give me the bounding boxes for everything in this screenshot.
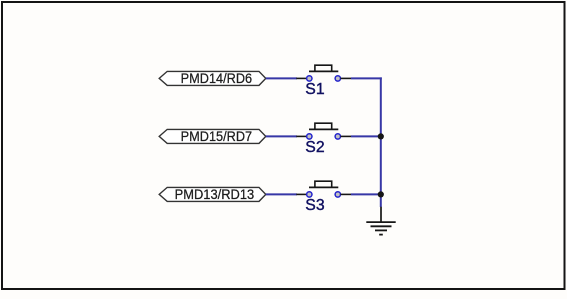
net label PMD13/RD13 bbox=[159, 186, 266, 202]
svg-text:PMD15/RD7: PMD15/RD7 bbox=[181, 128, 253, 144]
junction bbox=[378, 133, 384, 139]
wire bbox=[266, 193, 297, 195]
junction bbox=[378, 191, 384, 197]
wire bbox=[266, 135, 297, 137]
ground bbox=[366, 207, 395, 235]
switch S3 bbox=[296, 181, 351, 197]
wire bbox=[266, 77, 297, 79]
svg-text:S1: S1 bbox=[305, 81, 325, 98]
net label PMD15/RD7 bbox=[159, 128, 266, 144]
wire bbox=[380, 136, 382, 194]
wire bbox=[351, 135, 382, 137]
svg-text:S2: S2 bbox=[305, 139, 324, 156]
switch S1 bbox=[296, 65, 351, 81]
wire bbox=[380, 194, 382, 207]
wire bbox=[380, 77, 382, 136]
wire bbox=[351, 193, 382, 195]
net label PMD14/RD6 bbox=[159, 70, 266, 86]
svg-text:S3: S3 bbox=[305, 197, 325, 214]
switch S2 bbox=[296, 123, 351, 139]
wire bbox=[351, 77, 382, 79]
svg-text:PMD14/RD6: PMD14/RD6 bbox=[181, 70, 253, 86]
svg-text:PMD13/RD13: PMD13/RD13 bbox=[175, 186, 255, 202]
